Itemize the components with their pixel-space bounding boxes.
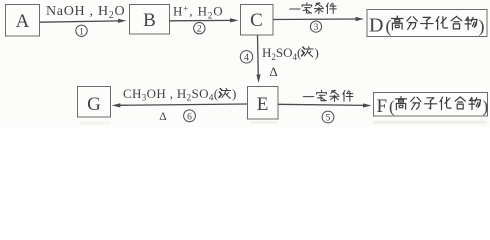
box E [248, 87, 279, 120]
svg-text:A: A [16, 11, 30, 32]
svg-text:H+, H2O: H+, H2O [173, 4, 224, 21]
svg-text:D: D [369, 15, 383, 37]
svg-text:F: F [377, 96, 388, 117]
svg-text:): ) [479, 16, 485, 37]
svg-text:H2SO4(: H2SO4( [262, 45, 301, 62]
svg-text:): ) [232, 86, 236, 101]
label yiding tiaojian (top) [290, 3, 336, 14]
svg-text:C: C [250, 10, 263, 31]
svg-text:): ) [315, 45, 319, 60]
box C [241, 5, 274, 36]
label circled 1 [76, 25, 87, 36]
svg-text:G: G [87, 94, 101, 115]
svg-text:1: 1 [79, 27, 84, 37]
svg-text:5: 5 [326, 114, 331, 124]
svg-text:B: B [143, 10, 156, 31]
svg-text:Δ: Δ [159, 111, 166, 123]
svg-text:NaOH , H2O: NaOH , H2O [46, 4, 125, 21]
svg-text:Δ: Δ [269, 64, 277, 79]
label circled 3 [310, 21, 321, 32]
svg-text:E: E [257, 94, 269, 115]
wire arrow 1: A to B [40, 21, 120, 22]
svg-text:CH3OH , H2SO4(: CH3OH , H2SO4( [123, 86, 218, 103]
label circled 2 [194, 23, 205, 34]
label yiding tiaojian (bottom) [303, 90, 353, 101]
label circled 4 [240, 51, 252, 63]
svg-text:(: ( [389, 97, 395, 116]
box F [374, 93, 488, 117]
svg-text:): ) [483, 97, 489, 116]
box G [78, 87, 111, 118]
wire arrow 5: E to F (right) [278, 104, 366, 105]
faint scan bleed-through streak [80, 121, 487, 125]
wire arrow 4: C down to E [257, 35, 260, 77]
svg-text:4: 4 [244, 53, 249, 64]
svg-text:6: 6 [187, 112, 192, 122]
box B [130, 5, 170, 35]
svg-text:2: 2 [197, 25, 202, 35]
label circled 6 [184, 110, 196, 122]
wire arrow 2: B to C [170, 19, 232, 21]
svg-text:3: 3 [314, 23, 319, 33]
box A [6, 5, 40, 37]
box D [367, 10, 487, 37]
wire arrow 6: E to G (left) [118, 104, 247, 105]
svg-text:(: ( [386, 16, 392, 37]
wire arrow 3: C to D [273, 18, 358, 21]
label circled 5 [322, 111, 334, 123]
